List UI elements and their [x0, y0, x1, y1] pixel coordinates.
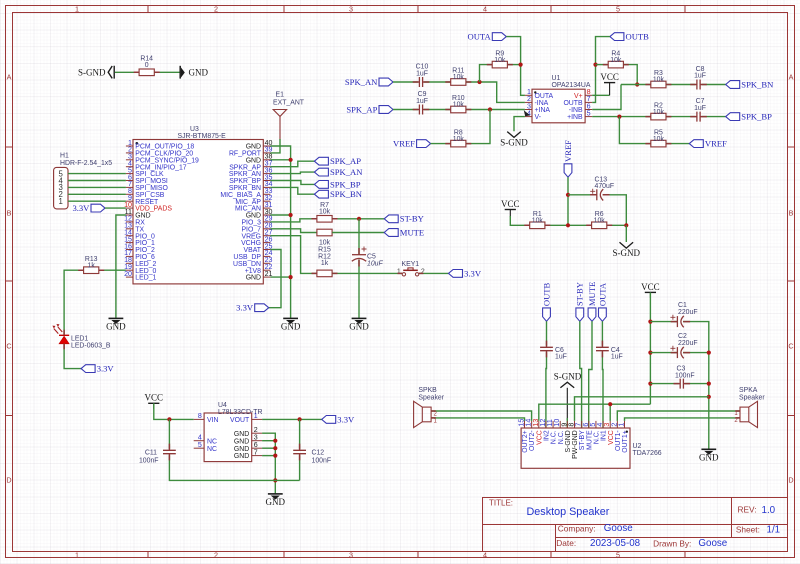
antenna E1 EXT_ANT: [273, 92, 305, 140]
svg-text:Drawn By:: Drawn By:: [653, 538, 691, 548]
U4 pin 3 GND: [234, 434, 262, 446]
junction U2 pin3 VCC: [608, 402, 612, 406]
wire VCC rail down: [649, 292, 651, 404]
U3 pin 29 PIO_3: [241, 215, 272, 227]
net flag VREF at R8: [393, 139, 431, 149]
wire junction to C5: [358, 219, 360, 254]
svg-text:MUTE: MUTE: [400, 227, 424, 237]
U3 pin 8 SPI_CSB: [126, 187, 165, 199]
svg-text:1uF: 1uF: [611, 354, 623, 361]
U3 pin 16 PIO_2: [124, 242, 155, 254]
svg-text:1uF: 1uF: [694, 105, 706, 112]
resistor R3: [651, 70, 666, 88]
wire U1 +INB to R2: [592, 116, 651, 118]
junction R4/OUTB: [593, 63, 597, 67]
wire R2 to C7: [666, 116, 695, 118]
svg-text:GND: GND: [246, 275, 261, 282]
svg-text:1: 1: [397, 269, 401, 276]
wire C12 to bottom rail: [299, 455, 301, 480]
U2 pin 9 S-GND: [560, 421, 572, 453]
wire VREF to R8: [431, 143, 451, 145]
U3 pin 23 USB_DN: [233, 256, 272, 268]
svg-text:OUTB: OUTB: [626, 32, 650, 42]
U3 pin 20 LED_1: [124, 270, 156, 282]
wire LED1 anode to 3.3V: [64, 344, 81, 369]
U3 pin 10 VDD_PADS: [124, 201, 172, 213]
net flag SPK_AP input: [346, 104, 393, 114]
capacitor C5 10uF polarized: [352, 247, 384, 268]
U3 pin 38 GND: [246, 153, 273, 165]
resistor R8: [451, 129, 466, 147]
svg-text:3.3V: 3.3V: [464, 268, 482, 278]
svg-text:1.0: 1.0: [762, 505, 776, 516]
ground GND (below U3 pin11): [106, 318, 126, 331]
component pin stubs: [134, 71, 160, 73]
svg-text:VCC: VCC: [145, 393, 164, 403]
svg-text:1/1: 1/1: [767, 525, 781, 536]
resistor R4: [608, 50, 623, 68]
wire R5 to VREF: [666, 143, 689, 145]
svg-text:OUT1-: OUT1-: [615, 430, 622, 451]
svg-text:SPKA: SPKA: [739, 387, 758, 394]
svg-text:VCC: VCC: [608, 430, 615, 445]
svg-text:TITLE:: TITLE:: [489, 499, 513, 508]
U3 pin 7 SPI_MISO: [126, 180, 169, 192]
U3 pin 5 SPI_CLK: [126, 166, 164, 178]
svg-text:VOUT: VOUT: [230, 417, 250, 424]
U3 pin 14 PIO_0: [124, 229, 155, 241]
wire R13 to LED1 cathode: [64, 270, 84, 334]
net flag OUTA vertical flag: [597, 282, 607, 321]
U3 pin 35 SPKR_BP: [229, 173, 272, 185]
svg-text:GND: GND: [266, 497, 286, 507]
net flag SPK_BP output: [314, 179, 360, 189]
U4 pin 8 VIN: [194, 412, 219, 424]
svg-text:VCC: VCC: [501, 199, 520, 209]
wire R8 up to +INA node: [466, 110, 490, 144]
wire VCC to U4 VIN: [154, 403, 194, 419]
capacitor C13 470uF polarized: [590, 176, 614, 200]
svg-text:GND: GND: [281, 321, 301, 331]
ground GND (rail below U3): [281, 318, 301, 331]
svg-text:1uF: 1uF: [416, 98, 428, 105]
svg-text:GND: GND: [699, 452, 719, 462]
svg-text:20: 20: [124, 270, 132, 278]
U3 pin 27 VREG: [241, 229, 272, 241]
U3 pin 25 VBAT: [244, 242, 273, 254]
U3 pin 15 PIO_1: [124, 235, 155, 247]
wire C4 to U2 IN1: [601, 352, 604, 428]
svg-text:-INB: -INB: [569, 107, 583, 114]
svg-text:U4: U4: [218, 402, 227, 409]
svg-text:SPK_BP: SPK_BP: [330, 179, 361, 189]
junction R4/R3: [635, 82, 639, 86]
svg-text:NC: NC: [207, 438, 217, 445]
svg-text:U1: U1: [552, 75, 561, 82]
junction R1/R6/VREF: [566, 223, 570, 227]
svg-text:OUTB: OUTB: [541, 282, 551, 306]
wire U3 pin30 to rail: [270, 214, 290, 216]
wire node to C13: [568, 194, 596, 196]
wire H1 pin 1 to U3: [68, 200, 126, 202]
resistor R9: [492, 50, 507, 68]
svg-text:LED-0603_B: LED-0603_B: [71, 342, 111, 349]
svg-text:GND: GND: [234, 431, 249, 438]
svg-text:Goose: Goose: [698, 538, 727, 549]
junction VREF/C13: [566, 193, 570, 197]
U2 pin 6 MUTE: [582, 421, 594, 450]
port GND (top-left): [180, 66, 208, 79]
regulator U4 L78L33CD-TR body: [204, 402, 262, 462]
svg-text:1: 1: [734, 411, 738, 417]
net flag 3.3V at U3 VDD_PADS: [72, 203, 105, 213]
U2 pin 10 N.C.: [553, 419, 565, 444]
svg-text:3.3V: 3.3V: [337, 414, 355, 424]
amplifier U2 TDA7266 body: [521, 428, 662, 468]
wire H1 pin 3 to U3: [68, 186, 126, 188]
wire VREF down: [567, 177, 569, 225]
svg-text:VCC: VCC: [641, 282, 660, 292]
wire R9 to OUTA net: [508, 64, 521, 66]
wire node to R4: [596, 64, 609, 66]
svg-text:2023-05-08: 2023-05-08: [590, 538, 641, 549]
net flag OUTB flag: [610, 32, 649, 42]
wire S-GND to R14: [115, 71, 139, 73]
svg-text:2: 2: [214, 5, 218, 14]
svg-text:C5: C5: [367, 254, 376, 261]
U2 pin 8 PW-GND: [568, 421, 580, 459]
U2 pin 7 ST-BY: [575, 421, 587, 450]
capacitor C2 220uF polarized: [670, 333, 697, 358]
junction U4 GND pin: [273, 439, 277, 443]
net flag ST-BY: [384, 214, 424, 224]
svg-text:C11: C11: [145, 450, 157, 457]
svg-text:OUT1+: OUT1+: [622, 430, 629, 452]
junction R11/R9: [477, 80, 481, 84]
svg-text:N.C.: N.C.: [551, 430, 558, 444]
wire U3 to SPK_AP flag: [270, 161, 314, 167]
U4 pin 2 GND: [234, 426, 262, 438]
svg-text:1: 1: [75, 5, 79, 14]
svg-text:GND: GND: [234, 446, 249, 453]
svg-text:10k: 10k: [653, 136, 665, 143]
resistor R14: [139, 55, 154, 75]
svg-text:10k: 10k: [453, 136, 465, 143]
wire antenna to U3 pin39 RF_PORT: [270, 139, 280, 153]
svg-text:ST-BY: ST-BY: [400, 214, 424, 224]
net flag SPK_AN input: [345, 77, 393, 87]
wire U3 pin11 to ground: [116, 215, 126, 318]
U1 pin 7 OUTB: [563, 95, 592, 107]
U3 pin 12 RX: [124, 215, 145, 227]
wire U3 to SPK_AN flag: [270, 172, 314, 174]
svg-text:VIN: VIN: [207, 417, 219, 424]
wire U2 OUT1+ to SPKA pin2: [625, 418, 741, 421]
ground GND (below U4): [266, 494, 286, 507]
svg-text:2: 2: [434, 411, 438, 417]
svg-text:PW-GND: PW-GND: [572, 430, 579, 459]
IC U3 SJR-BTM875-E body: [133, 126, 263, 284]
U3 pin 36 SPKR_AN: [229, 166, 273, 178]
svg-text:3.3V: 3.3V: [72, 203, 90, 213]
wire C1 right / GND rail: [683, 322, 709, 449]
junction pin38/GND rail: [289, 158, 293, 162]
U2 pin 11 N.C.: [546, 419, 558, 444]
svg-text:100nF: 100nF: [312, 457, 332, 464]
svg-text:N.C.: N.C.: [558, 430, 565, 444]
wire MUTE to U2 pin6: [589, 321, 592, 428]
wire H1 pin 4 to U3: [68, 180, 126, 182]
svg-text:5: 5: [587, 109, 591, 117]
port S-GND (top-left): [78, 66, 114, 79]
svg-text:SPK_AN: SPK_AN: [330, 167, 363, 177]
svg-text:S-GND: S-GND: [613, 248, 641, 258]
svg-text:SPKB: SPKB: [418, 387, 437, 394]
U3 pin 2 PCM_CLK/PIO_20: [126, 146, 193, 158]
capacitor C4 1uF: [596, 347, 609, 350]
svg-text:IN2: IN2: [544, 430, 551, 441]
capacitor C8 1uF: [697, 80, 700, 90]
svg-text:KEY1: KEY1: [402, 261, 420, 268]
wire U2 VCC pins rail: [539, 404, 651, 421]
svg-text:S-GND: S-GND: [78, 68, 106, 78]
svg-text:MUTE: MUTE: [586, 430, 593, 450]
svg-text:OUT2+: OUT2+: [522, 430, 529, 452]
svg-text:A: A: [7, 73, 12, 82]
U3 pin 28 PIO_7: [241, 222, 272, 234]
U4 pin 6 GND: [234, 441, 262, 453]
wire R4 to R3 node: [623, 65, 637, 85]
svg-text:OUTA: OUTA: [535, 93, 554, 100]
U3 pin 13 TX: [124, 222, 144, 234]
speaker SPKB: [414, 387, 445, 427]
wire 3.3V to U3 pin10: [105, 207, 126, 209]
capacitor C11 100nF: [163, 450, 176, 453]
svg-text:VREF: VREF: [705, 139, 727, 149]
junction pin21/GND rail: [289, 275, 293, 279]
wire SPK_AP to C9: [393, 109, 418, 111]
wire KEY1 to 3.3V flag: [419, 272, 449, 274]
junction R9/OUTA: [519, 63, 523, 67]
svg-text:2: 2: [214, 550, 218, 559]
U3 pin 32 MIC_AP: [235, 194, 272, 206]
svg-text:Desktop Speaker: Desktop Speaker: [527, 506, 610, 518]
ground GND (below C bank): [699, 449, 719, 462]
svg-text:S-GND: S-GND: [565, 430, 572, 452]
U2 pin 4 IN1: [596, 421, 608, 441]
svg-text:1uF: 1uF: [555, 354, 567, 361]
op-amp U1 OPA2134UA body: [532, 75, 591, 123]
svg-text:220uF: 220uF: [678, 309, 698, 316]
svg-text:D: D: [788, 476, 793, 485]
U4 pin 4 NC: [194, 434, 217, 446]
svg-text:SPK_AP: SPK_AP: [346, 104, 377, 114]
svg-text:470uF: 470uF: [595, 183, 615, 190]
U3 pin 33 MIC_BIAS_A: [220, 187, 272, 199]
U3 pin 40 GND: [246, 139, 273, 151]
wire to C1: [650, 321, 677, 323]
svg-text:EXT_ANT: EXT_ANT: [273, 100, 305, 107]
U1 pin 8 V+: [574, 88, 592, 100]
wire U4 GND pin to vertical: [262, 447, 275, 449]
svg-text:10k: 10k: [494, 57, 506, 64]
connector H1 HDR-F-2.54_1x5: [54, 153, 113, 209]
svg-text:VREF: VREF: [393, 139, 415, 149]
wire U3 pin27 VREG to R12: [270, 236, 317, 274]
U3 pin 24 USB_DP: [233, 249, 272, 261]
svg-text:N.C.: N.C.: [594, 430, 601, 444]
wire C8 to SPK_BN: [702, 84, 726, 86]
resistor R11: [451, 68, 466, 86]
wire OUTB down to C6: [546, 321, 548, 345]
junction ST-BY/C5: [357, 217, 361, 221]
svg-text:1k: 1k: [321, 260, 329, 267]
wire U1 V- to S-GND: [514, 117, 525, 132]
svg-text:SPK_BN: SPK_BN: [330, 189, 363, 199]
U3 pin 30 GND: [246, 208, 273, 220]
resistor R5: [651, 129, 666, 147]
wire R12 to KEY1: [332, 272, 402, 274]
svg-text:10k: 10k: [453, 102, 465, 109]
U4 pin 7 GND: [234, 448, 262, 460]
svg-text:1uF: 1uF: [416, 70, 428, 77]
svg-text:4: 4: [483, 5, 487, 14]
svg-text:10k: 10k: [653, 109, 665, 116]
junction C1 left: [648, 320, 652, 324]
svg-text:NC: NC: [207, 446, 217, 453]
resistor R12: [317, 253, 332, 276]
capacitor C9 1uF: [419, 105, 422, 115]
svg-text:SPK_BN: SPK_BN: [741, 79, 774, 89]
svg-text:Date:: Date:: [556, 538, 576, 548]
svg-text:SPK_AN: SPK_AN: [345, 77, 378, 87]
wire down to C11: [168, 419, 170, 448]
net flag 3.3V at KEY1: [449, 268, 482, 278]
LED LED1 LED-0603_B: [52, 324, 110, 349]
svg-text:+INB: +INB: [567, 114, 583, 121]
svg-text:3: 3: [349, 550, 353, 559]
svg-text:8: 8: [198, 412, 202, 420]
U1 pin 3 +INA: [525, 102, 551, 114]
svg-text:1k: 1k: [88, 262, 96, 269]
U1 pin 2 -INA: [525, 95, 549, 107]
ground S-GND (below U1): [500, 132, 528, 148]
wire S-GND to U2 pin9: [566, 418, 568, 428]
net flag SPK_AN output: [314, 167, 363, 177]
svg-text:Goose: Goose: [604, 523, 633, 534]
wire U3 pin21 to rail: [270, 276, 290, 278]
U3 pin 3 PCM_SYNC/PIO_19: [126, 153, 199, 165]
wire node down to U1 -INB: [592, 85, 621, 110]
svg-text:S-GND: S-GND: [554, 372, 582, 382]
wire U3 to SPK_BN flag: [270, 187, 314, 194]
junction C3 right: [707, 382, 711, 386]
svg-text:OUTA: OUTA: [468, 32, 492, 42]
svg-text:B: B: [789, 209, 794, 218]
power VCC (at U1): [600, 72, 619, 95]
svg-text:-INA: -INA: [535, 100, 549, 107]
U4 pin 1 VOUT: [230, 412, 262, 424]
svg-text:TDA7266: TDA7266: [633, 450, 662, 457]
resistor R13: [84, 256, 99, 274]
svg-text:Sheet:: Sheet:: [736, 525, 760, 535]
U3 pin 39 RF_PORT: [229, 146, 273, 158]
svg-text:10k: 10k: [594, 218, 606, 225]
svg-text:A: A: [789, 73, 794, 82]
U3 pin 9 RESET: [126, 194, 159, 206]
svg-text:H1: H1: [60, 153, 69, 160]
ground GND (below C5): [349, 318, 369, 331]
U3 pin 19 LED_0: [124, 263, 156, 275]
capacitor C1 220uF polarized: [670, 302, 697, 327]
svg-text:2: 2: [734, 418, 738, 424]
wire R6 to node: [607, 224, 626, 226]
svg-text:SPK_BP: SPK_BP: [741, 112, 772, 122]
svg-text:Company:: Company:: [558, 524, 596, 534]
svg-text:U2: U2: [633, 443, 642, 450]
svg-text:V+: V+: [574, 93, 583, 100]
svg-text:Speaker: Speaker: [739, 394, 765, 401]
svg-text:V-: V-: [535, 114, 542, 121]
svg-text:OUTB: OUTB: [563, 100, 583, 107]
wire OUTB to U1 pin7: [592, 37, 610, 103]
svg-text:7: 7: [254, 448, 258, 456]
resistor R10: [451, 95, 466, 113]
wire U3 pin38 to rail: [270, 159, 290, 161]
capacitor C3 100nF: [680, 379, 683, 389]
U2 pin 2 OUT1-: [610, 421, 622, 451]
svg-text:S-GND: S-GND: [500, 137, 528, 147]
U3 pin 18 LED_2: [124, 256, 156, 268]
svg-text:10k: 10k: [453, 74, 465, 81]
wire to C3: [650, 383, 678, 385]
wire SPKB pin2 to U2 OUT2-: [431, 411, 531, 421]
net flag MUTE: [384, 227, 424, 237]
wire U3 pin25 VBAT to 3.3V: [269, 250, 281, 308]
wire U2 PW-GND to GND rail: [575, 397, 709, 421]
net flag SPK_BN output: [726, 79, 774, 89]
net flag SPK_BN output: [314, 189, 362, 199]
wire node down to S-GND: [625, 225, 627, 242]
svg-text:+INA: +INA: [535, 107, 551, 114]
junction C2 right: [707, 351, 711, 355]
capacitor C7 1uF: [697, 112, 700, 122]
junction GND rail/cap rail: [273, 478, 277, 482]
wire R13 to U3 pin19 LED_0: [99, 269, 126, 271]
U2 pin 13 VCC: [532, 419, 544, 445]
svg-text:2: 2: [421, 269, 425, 276]
svg-text:U3: U3: [190, 126, 199, 133]
resistor R15: [317, 229, 332, 253]
U2 pin 3 VCC: [603, 421, 615, 445]
junction U4 GND pin: [273, 446, 277, 450]
svg-text:GND: GND: [234, 453, 249, 460]
title block: [483, 498, 788, 552]
U2 pin 15 OUT2+: [518, 419, 530, 453]
svg-text:SJR-BTM875-E: SJR-BTM875-E: [178, 133, 227, 140]
wire C5 to ground: [358, 260, 360, 318]
svg-text:10k: 10k: [653, 77, 665, 84]
svg-text:1: 1: [434, 418, 438, 424]
svg-text:HDR-F-2.54_1x5: HDR-F-2.54_1x5: [60, 160, 112, 167]
U3 pin 22 +1V8: [245, 263, 273, 275]
U1 pin 5 +INB: [567, 109, 592, 121]
net flag 3.3V at LED1: [81, 364, 114, 374]
power VCC (at R1): [501, 199, 520, 217]
U3 pin 11 GND: [125, 208, 151, 220]
ground S-GND (above U2): [554, 372, 582, 420]
svg-text:GND: GND: [234, 438, 249, 445]
